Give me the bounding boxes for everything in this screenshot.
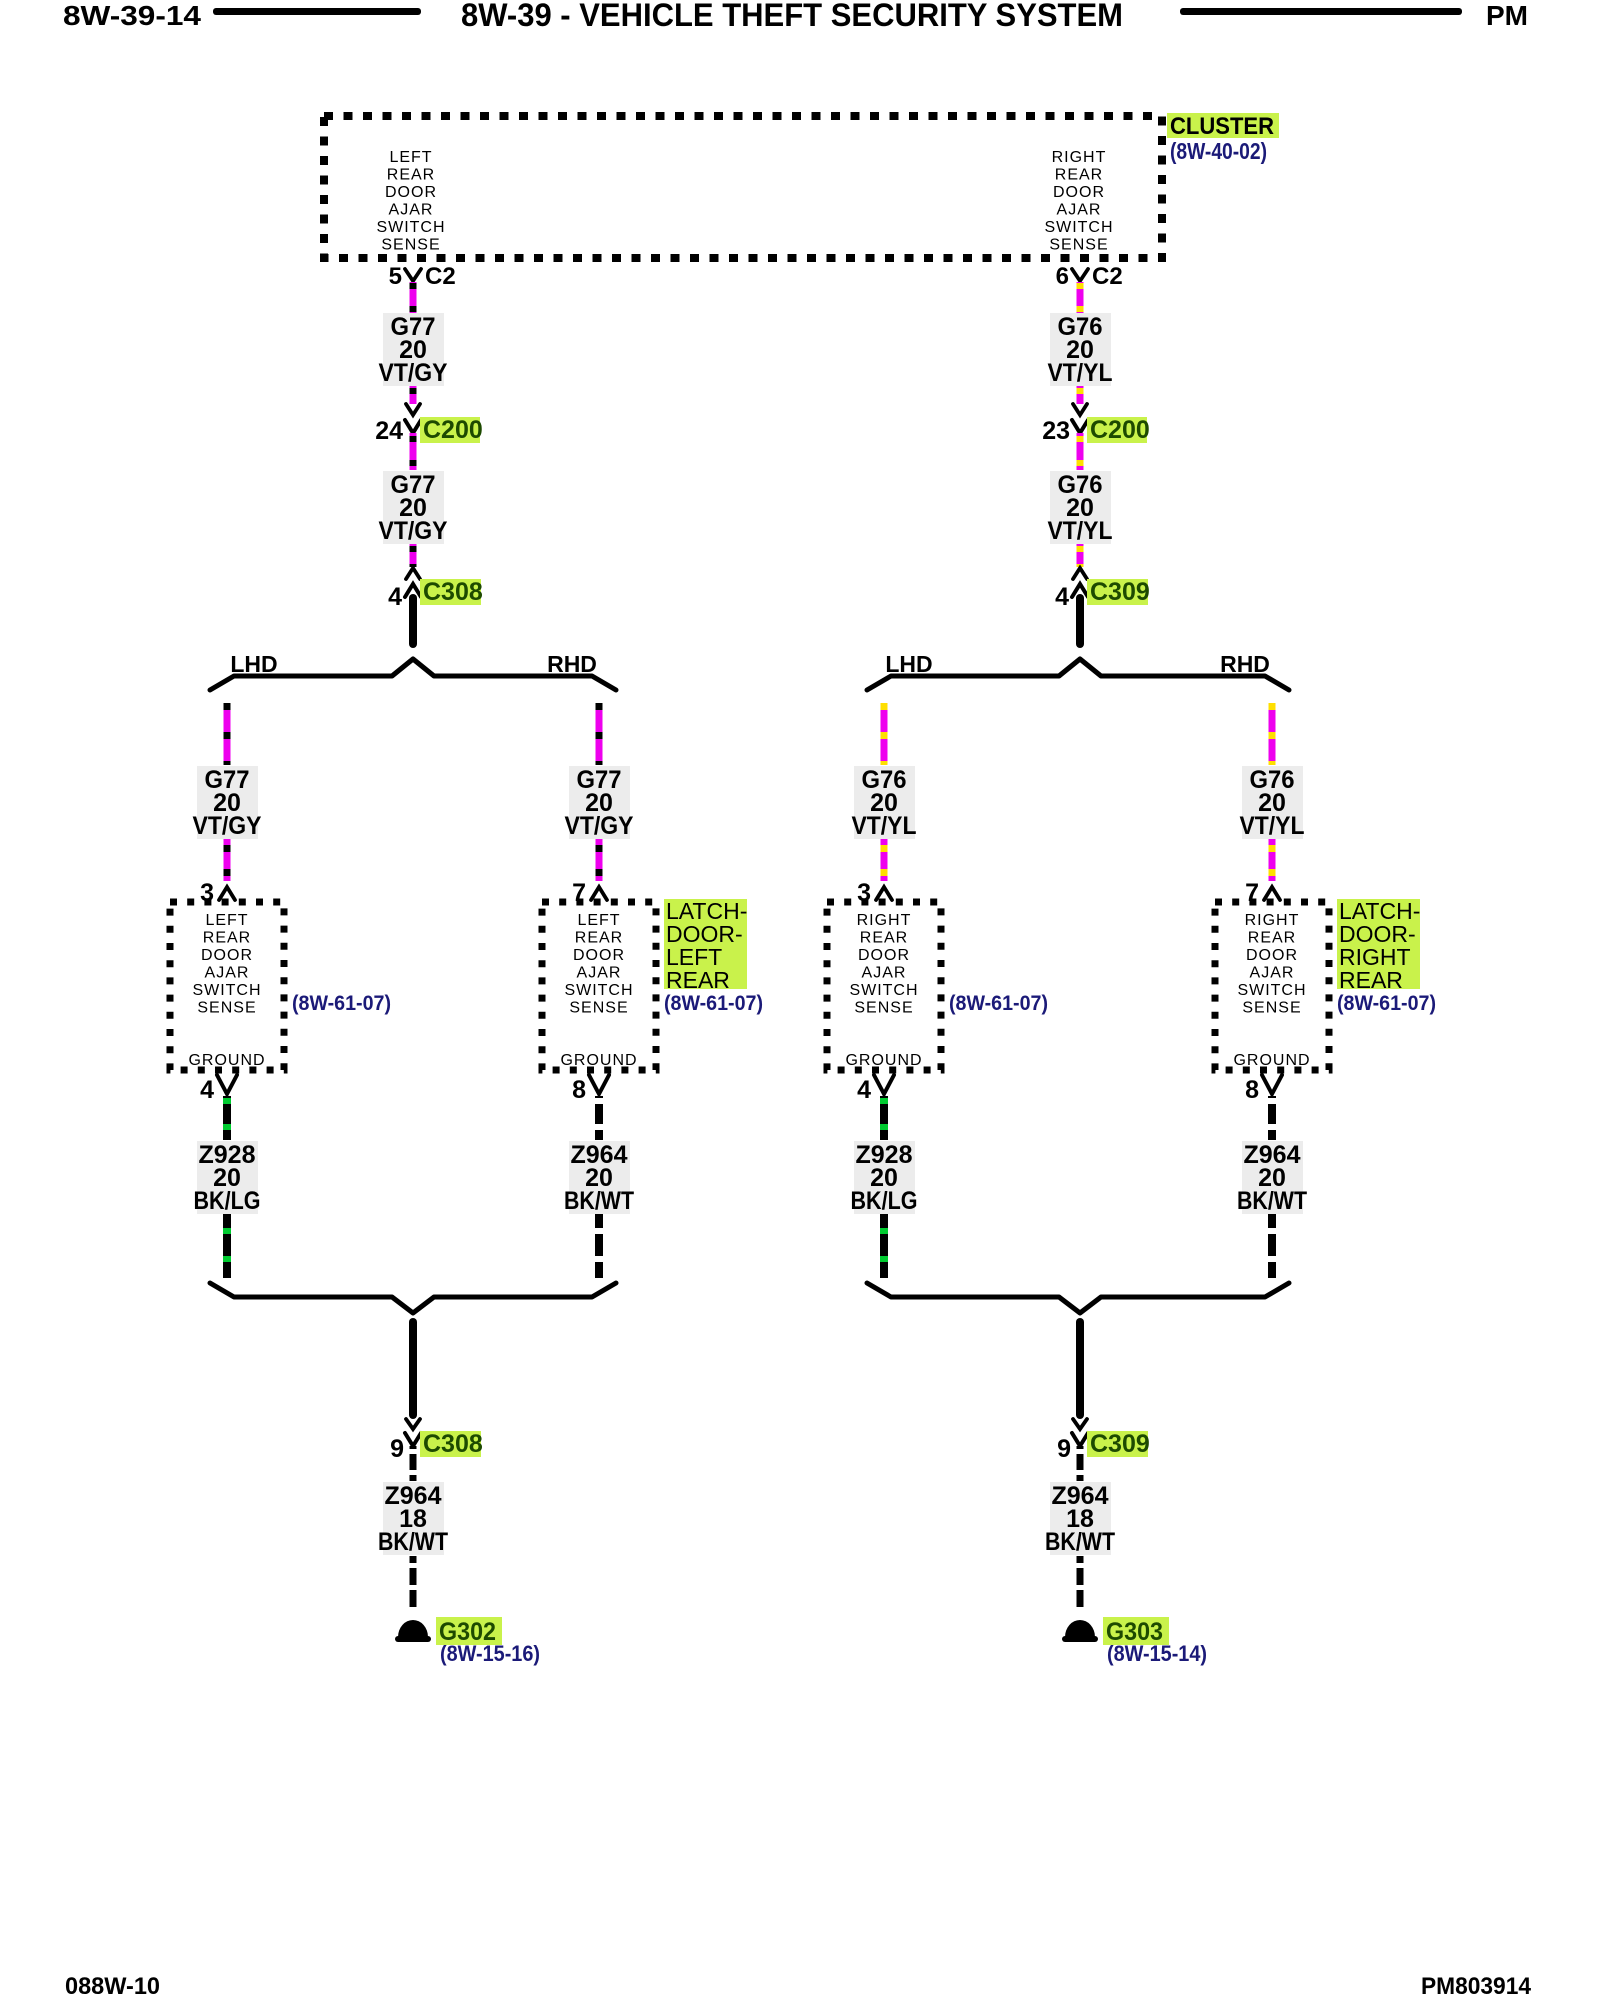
svg-text:AJAR: AJAR: [1057, 202, 1102, 219]
component label CLUSTER: [1167, 113, 1279, 138]
wire G76 to switch (right RHD): [1269, 839, 1276, 881]
svg-text:VT/GY: VT/GY: [379, 359, 448, 387]
wire label G77 20 VT/GY (left LHD): [197, 766, 258, 839]
svg-text:DOOR: DOOR: [573, 947, 625, 964]
in-line connector C309 pin 9 (right): [1073, 1419, 1087, 1429]
svg-text:RHD: RHD: [1220, 651, 1270, 677]
wire Z964 from switch (right RHD): [1268, 1096, 1276, 1140]
svg-text:GROUND: GROUND: [1233, 1052, 1310, 1069]
svg-text:088W-10: 088W-10: [65, 1973, 160, 2000]
wire label Z964 18 BK/WT (left): [383, 1482, 444, 1555]
svg-text:8W-39-14: 8W-39-14: [63, 0, 201, 31]
ground symbol G302: [398, 1620, 428, 1637]
svg-text:VT/YL: VT/YL: [852, 812, 917, 840]
svg-text:C309: C309: [1090, 578, 1150, 606]
svg-text:SWITCH: SWITCH: [192, 982, 261, 999]
svg-text:(8W-61-07): (8W-61-07): [1337, 992, 1436, 1015]
svg-text:4: 4: [388, 583, 402, 611]
svg-text:SWITCH: SWITCH: [564, 982, 633, 999]
svg-text:AJAR: AJAR: [862, 965, 907, 982]
wire G77 to switch (left RHD): [596, 839, 603, 881]
svg-text:9: 9: [1057, 1435, 1071, 1463]
wire label G77 20 VT/GY lower (left): [383, 471, 444, 544]
svg-text:C200: C200: [423, 416, 483, 444]
svg-text:SWITCH: SWITCH: [376, 219, 445, 236]
svg-text:C308: C308: [423, 578, 483, 606]
wire G77 segment below C200 (left): [410, 433, 417, 470]
svg-text:DOOR: DOOR: [201, 947, 253, 964]
wire trunk below C308 (left): [409, 598, 417, 644]
svg-text:SENSE: SENSE: [197, 1000, 256, 1017]
wire label Z964 20 BK/WT (left RHD): [569, 1141, 630, 1214]
svg-text:REAR: REAR: [1055, 167, 1103, 184]
svg-text:RIGHT: RIGHT: [857, 912, 912, 929]
svg-text:RIGHT: RIGHT: [1052, 149, 1107, 166]
svg-text:GROUND: GROUND: [188, 1052, 265, 1069]
wire trunk to C308 (left): [409, 1322, 417, 1415]
wire G76 segment to C200 (right): [1077, 386, 1084, 404]
door ajar switch dashed box (right RHD): [1215, 902, 1329, 1070]
wire label Z928 20 BK/LG (right LHD): [854, 1141, 915, 1214]
wire G77 segment to C308 (left): [410, 544, 417, 567]
wire G77 drop (left RHD): [596, 703, 603, 765]
svg-text:23: 23: [1042, 417, 1070, 445]
svg-text:CLUSTER: CLUSTER: [1170, 113, 1274, 140]
wire trunk to C309 (right): [1076, 1322, 1084, 1415]
svg-text:LHD: LHD: [885, 651, 932, 677]
ground splice merge bracket (left half): [210, 1283, 616, 1313]
svg-text:C309: C309: [1090, 1430, 1150, 1458]
svg-text:(8W-15-14): (8W-15-14): [1107, 1641, 1207, 1666]
svg-text:SENSE: SENSE: [854, 1000, 913, 1017]
LHD/RHD split bracket (left half): [210, 659, 616, 690]
svg-text:DOOR: DOOR: [858, 947, 910, 964]
svg-text:BK/WT: BK/WT: [564, 1187, 634, 1215]
wire G77 drop (left LHD): [224, 703, 231, 765]
svg-text:VT/GY: VT/GY: [565, 812, 634, 840]
svg-text:VT/GY: VT/GY: [379, 517, 448, 545]
door ajar switch dashed box (left RHD): [542, 902, 656, 1070]
svg-text:SENSE: SENSE: [1049, 237, 1108, 254]
wire G76 drop (right RHD): [1269, 703, 1276, 765]
svg-text:REAR: REAR: [1248, 930, 1296, 947]
svg-text:C2: C2: [1092, 263, 1123, 290]
svg-text:8W-39 - VEHICLE THEFT SECURITY: 8W-39 - VEHICLE THEFT SECURITY SYSTEM: [461, 0, 1123, 33]
wire label G76 20 VT/YL (right RHD): [1242, 766, 1303, 839]
wire G76 segment to C309 (right): [1077, 544, 1084, 567]
in-line connector C309 pin 4 (right): [1073, 568, 1087, 579]
wire Z928 from switch (right LHD): [880, 1096, 888, 1140]
ground label G303: [1103, 1617, 1169, 1645]
wire trunk below C309 (right): [1076, 598, 1084, 644]
wire Z964 below C309 (right): [1077, 1446, 1084, 1481]
svg-text:(8W-40-02): (8W-40-02): [1170, 138, 1267, 164]
wire label G77 20 VT/GY (left RHD): [569, 766, 630, 839]
svg-text:SENSE: SENSE: [1242, 1000, 1301, 1017]
svg-text:AJAR: AJAR: [389, 202, 434, 219]
in-line connector C200 pin 24 (left): [406, 404, 420, 415]
svg-text:SWITCH: SWITCH: [1237, 982, 1306, 999]
wire label Z964 18 BK/WT (right): [1050, 1482, 1111, 1555]
wire Z964 to splice (right RHD): [1268, 1214, 1276, 1278]
wire label G77 20 VT/GY upper (left): [383, 313, 444, 386]
door ajar switch dashed box (right LHD): [827, 902, 941, 1070]
in-line connector C308 pin 4 (left): [406, 568, 420, 579]
svg-text:(8W-61-07): (8W-61-07): [949, 992, 1048, 1015]
svg-text:4: 4: [200, 1076, 214, 1104]
wire label G76 20 VT/YL upper (right): [1050, 313, 1111, 386]
svg-text:(8W-61-07): (8W-61-07): [664, 992, 763, 1015]
svg-text:BK/LG: BK/LG: [851, 1187, 918, 1215]
svg-text:BK/WT: BK/WT: [378, 1528, 448, 1556]
svg-text:4: 4: [857, 1076, 871, 1104]
wire label Z964 20 BK/WT (right RHD): [1242, 1141, 1303, 1214]
svg-text:5: 5: [389, 263, 402, 290]
svg-text:C200: C200: [1090, 416, 1150, 444]
svg-text:PM803914: PM803914: [1421, 1973, 1532, 2000]
svg-text:AJAR: AJAR: [1250, 965, 1295, 982]
svg-text:AJAR: AJAR: [577, 965, 622, 982]
svg-text:LHD: LHD: [230, 651, 277, 677]
svg-text:REAR: REAR: [860, 930, 908, 947]
svg-text:SWITCH: SWITCH: [1044, 219, 1113, 236]
wire G76 drop (right LHD): [881, 703, 888, 765]
svg-text:9: 9: [390, 1435, 404, 1463]
svg-text:4: 4: [1055, 583, 1069, 611]
svg-text:6: 6: [1056, 263, 1069, 290]
wire Z964 to splice (left RHD): [595, 1214, 603, 1278]
wire Z964 from switch (left RHD): [595, 1096, 603, 1140]
in-line connector C200 pin 23 (right): [1073, 404, 1087, 415]
component label LATCH--DOOR-LEFT-REAR (left RHD): [664, 899, 747, 989]
svg-text:REAR: REAR: [575, 930, 623, 947]
svg-text:REAR: REAR: [387, 167, 435, 184]
door ajar switch dashed box (left LHD): [170, 902, 284, 1070]
svg-text:SENSE: SENSE: [381, 237, 440, 254]
wire Z928 to splice (right LHD): [880, 1214, 888, 1278]
wire G76 segment from C2 (right): [1077, 282, 1084, 313]
svg-text:VT/YL: VT/YL: [1048, 359, 1113, 387]
wire Z964 to ground (left): [410, 1556, 417, 1610]
header rule right: [1180, 8, 1462, 15]
ground splice merge bracket (right half): [867, 1283, 1289, 1313]
svg-text:RIGHT: RIGHT: [1245, 912, 1300, 929]
svg-text:(8W-61-07): (8W-61-07): [292, 992, 391, 1015]
svg-text:REAR: REAR: [1339, 967, 1403, 993]
svg-text:VT/GY: VT/GY: [193, 812, 262, 840]
svg-text:GROUND: GROUND: [845, 1052, 922, 1069]
svg-text:VT/YL: VT/YL: [1240, 812, 1305, 840]
svg-text:8: 8: [572, 1076, 586, 1104]
header rule left: [213, 8, 421, 15]
wire G77 segment to C200 (left): [410, 386, 417, 404]
svg-text:REAR: REAR: [203, 930, 251, 947]
svg-text:GROUND: GROUND: [560, 1052, 637, 1069]
svg-text:24: 24: [375, 417, 403, 445]
svg-text:RHD: RHD: [547, 651, 597, 677]
svg-text:REAR: REAR: [666, 967, 730, 993]
wire Z928 to splice (left LHD): [223, 1214, 231, 1278]
wire G77 to switch (left LHD): [224, 839, 231, 881]
cluster dashed box: [324, 116, 1162, 258]
svg-text:PM: PM: [1486, 0, 1528, 31]
svg-text:SWITCH: SWITCH: [849, 982, 918, 999]
in-line connector C308 pin 9 (left): [406, 1419, 420, 1429]
wire label G76 20 VT/YL lower (right): [1050, 471, 1111, 544]
wire Z964 below C308 (left): [410, 1446, 417, 1481]
wire G77 segment from C2 (left): [410, 282, 417, 313]
svg-text:BK/LG: BK/LG: [194, 1187, 261, 1215]
svg-text:8: 8: [1245, 1076, 1259, 1104]
svg-text:AJAR: AJAR: [205, 965, 250, 982]
svg-text:DOOR: DOOR: [385, 184, 437, 201]
svg-text:C2: C2: [425, 263, 456, 290]
ground symbol G303: [1065, 1620, 1095, 1637]
svg-text:BK/WT: BK/WT: [1237, 1187, 1307, 1215]
wire Z928 from switch (left LHD): [223, 1096, 231, 1140]
svg-text:VT/YL: VT/YL: [1048, 517, 1113, 545]
wire G76 segment below C200 (right): [1077, 433, 1084, 470]
LHD/RHD split bracket (right half): [867, 659, 1289, 690]
wire Z964 to ground (right): [1077, 1556, 1084, 1610]
svg-text:DOOR: DOOR: [1053, 184, 1105, 201]
svg-text:BK/WT: BK/WT: [1045, 1528, 1115, 1556]
svg-text:C308: C308: [423, 1430, 483, 1458]
ground label G302: [436, 1617, 502, 1645]
svg-text:LEFT: LEFT: [205, 912, 248, 929]
svg-text:(8W-15-16): (8W-15-16): [440, 1641, 540, 1666]
component label LATCH--DOOR-RIGHT-REAR (right RHD): [1337, 899, 1420, 989]
svg-text:SENSE: SENSE: [569, 1000, 628, 1017]
wire label Z928 20 BK/LG (left LHD): [197, 1141, 258, 1214]
wire G76 to switch (right LHD): [881, 839, 888, 881]
svg-text:LEFT: LEFT: [389, 149, 432, 166]
wire label G76 20 VT/YL (right LHD): [854, 766, 915, 839]
svg-text:DOOR: DOOR: [1246, 947, 1298, 964]
svg-text:LEFT: LEFT: [577, 912, 620, 929]
